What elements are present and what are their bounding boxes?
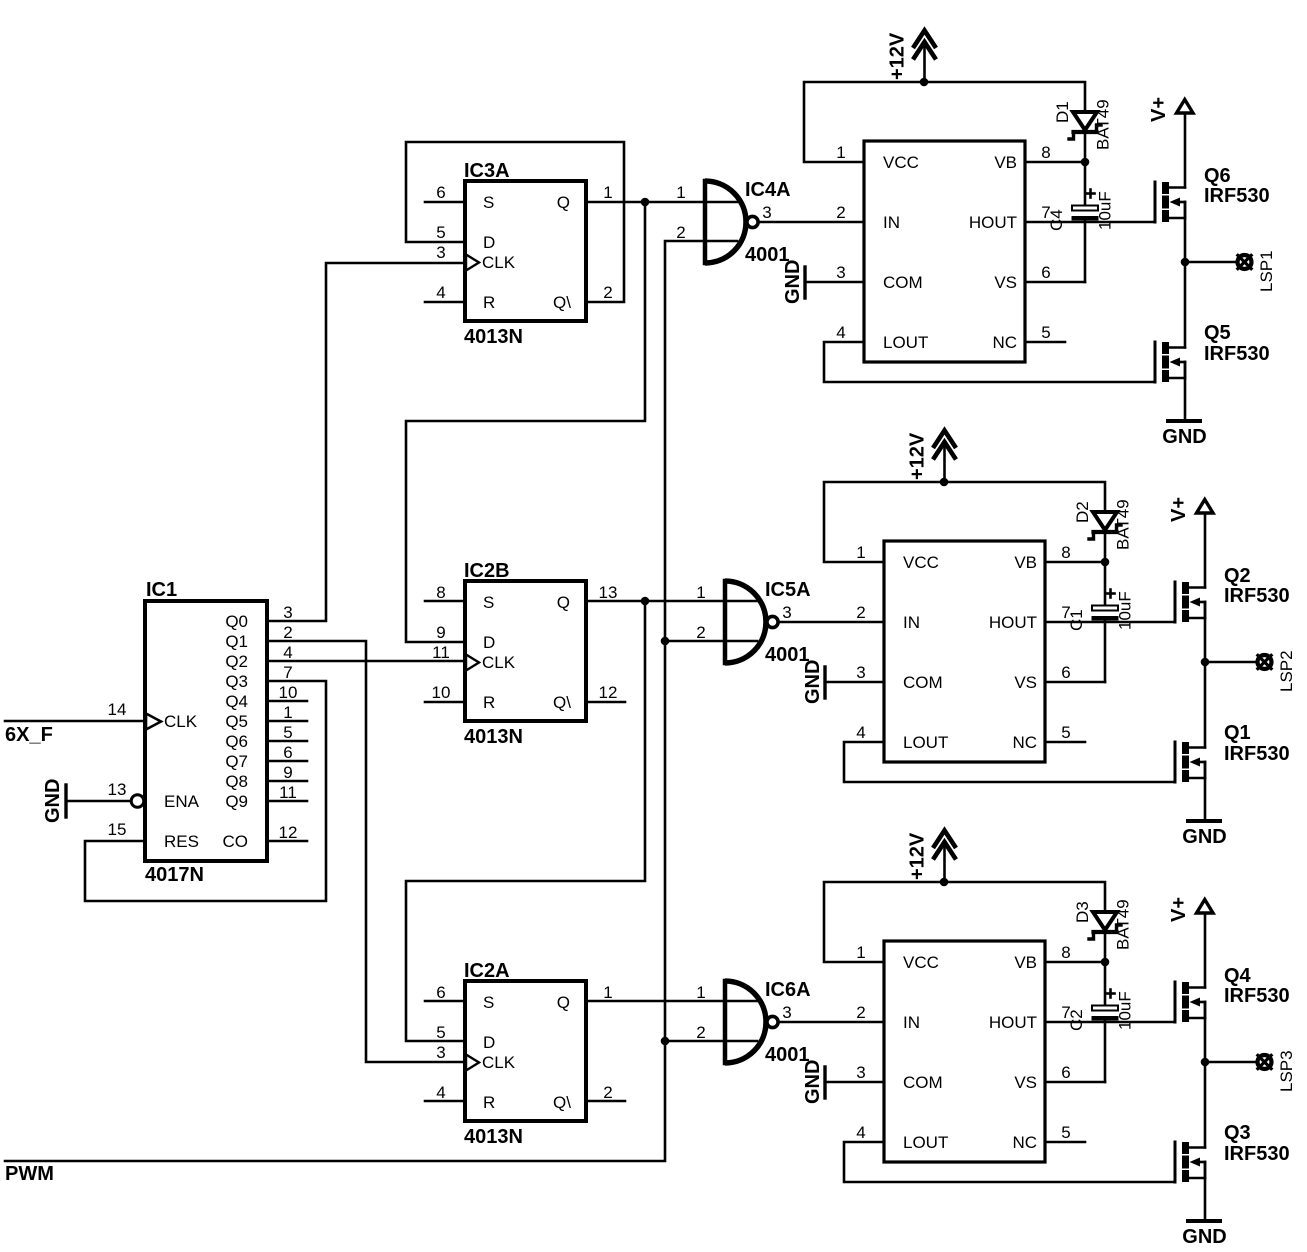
driver IC box (block 3) (884, 941, 1045, 1162)
IC2B R stub (425, 701, 465, 704)
driver NC stub (block 1) (1025, 341, 1065, 344)
svg-text:+12V: +12V (907, 432, 929, 480)
svg-text:4013N: 4013N (464, 1126, 523, 1148)
svg-text:COM: COM (903, 1073, 943, 1092)
svg-text:RES: RES (164, 832, 199, 851)
svg-text:+12V: +12V (887, 32, 909, 80)
NOR gate IC6A (696, 979, 810, 1066)
junction +12V rail (block 1) (920, 78, 929, 87)
svg-text:4017N: 4017N (145, 864, 204, 886)
transistor Q6 IRF530 (block 1) (1155, 165, 1270, 222)
svg-text:C1: C1 (1067, 609, 1086, 631)
wire Q2 source to output node (block 2) (1204, 602, 1207, 662)
svg-text:R: R (483, 693, 495, 712)
svg-text:IRF530: IRF530 (1224, 985, 1290, 1007)
svg-text:2: 2 (603, 1083, 612, 1102)
svg-text:R: R (483, 1093, 495, 1112)
svg-text:12: 12 (599, 683, 618, 702)
IC2A R stub (425, 1100, 465, 1103)
transistor Q5 IRF530 (block 1) (1155, 322, 1270, 382)
svg-text:2: 2 (676, 223, 685, 242)
svg-text:IN: IN (883, 213, 900, 232)
junction output node (block 1) (1181, 258, 1190, 267)
svg-text:Q5: Q5 (225, 712, 248, 731)
wire IC3A Q down to IC2B D (406, 202, 645, 642)
junction VB node (block 2) (1101, 558, 1110, 567)
driver IC box (block 2) (884, 541, 1045, 762)
IC1 Q8 stub (267, 780, 307, 783)
svg-text:10uF: 10uF (1116, 591, 1135, 630)
V+ supply symbol (block 3) (1168, 897, 1213, 988)
svg-text:Q6: Q6 (225, 732, 248, 751)
svg-text:BAT49: BAT49 (1094, 99, 1113, 150)
svg-text:NC: NC (1012, 1133, 1037, 1152)
wire IC1 Q2 to IC2B CLK (267, 660, 465, 663)
diode D3 BAT49 (block 3) (1073, 899, 1133, 960)
svg-text:VS: VS (1014, 1073, 1037, 1092)
+12V supply rail (block 1) (804, 82, 1085, 162)
IC1 ENA inverting bubble (131, 795, 144, 808)
svg-text:CLK: CLK (164, 712, 198, 731)
svg-text:8: 8 (436, 583, 445, 602)
wire IC2B Q to IC5A in1 (586, 600, 757, 603)
svg-text:4: 4 (283, 643, 292, 662)
svg-text:Q: Q (557, 993, 570, 1012)
wire IC2A Q to IC6A in1 (586, 1000, 757, 1003)
svg-text:BAT49: BAT49 (1114, 499, 1133, 550)
junction output node (block 3) (1201, 1058, 1210, 1067)
svg-text:IRF530: IRF530 (1204, 185, 1270, 207)
svg-text:D1: D1 (1053, 101, 1072, 123)
svg-text:3: 3 (762, 203, 771, 222)
wire output node to Q1 drain (block 2) (1204, 662, 1207, 748)
svg-text:IRF530: IRF530 (1224, 743, 1290, 765)
svg-text:IC6A: IC6A (765, 979, 811, 1001)
svg-text:2: 2 (696, 1023, 705, 1042)
+12V power symbol (block 3) (907, 831, 957, 883)
svg-text:14: 14 (108, 700, 127, 719)
wire LOUT to Q3 gate (block 3) (844, 1142, 1175, 1182)
svg-text:LOUT: LOUT (903, 1133, 948, 1152)
wire PWM branch to IC5A in2 (665, 640, 757, 643)
svg-text:NC: NC (992, 333, 1017, 352)
IC2B Q\ stub (586, 701, 625, 704)
svg-text:Q3: Q3 (1224, 1122, 1251, 1144)
svg-text:Q5: Q5 (1204, 322, 1231, 344)
IC1 Q5 stub (267, 720, 307, 723)
svg-text:VB: VB (994, 153, 1017, 172)
svg-text:9: 9 (283, 763, 292, 782)
wire output node to Q5 drain (block 1) (1184, 262, 1187, 348)
svg-text:5: 5 (436, 223, 445, 242)
svg-text:S: S (483, 193, 494, 212)
wire Q1 source to ground (block 2) (1204, 762, 1207, 820)
wire VB pin 8 (block 3) (1045, 961, 1105, 964)
svg-text:GND: GND (802, 660, 824, 704)
svg-text:8: 8 (1061, 543, 1070, 562)
svg-text:CLK: CLK (482, 1053, 516, 1072)
svg-text:1: 1 (696, 983, 705, 1002)
svg-text:IN: IN (903, 1013, 920, 1032)
svg-text:GND: GND (42, 779, 64, 823)
driver NC stub (block 2) (1045, 741, 1085, 744)
svg-text:Q3: Q3 (225, 672, 248, 691)
svg-text:6: 6 (1061, 1063, 1070, 1082)
wire LOUT to Q1 gate (block 2) (844, 742, 1175, 782)
svg-text:Q6: Q6 (1204, 165, 1231, 187)
junction VB node (block 1) (1081, 158, 1090, 167)
svg-text:3: 3 (836, 263, 845, 282)
svg-text:S: S (483, 993, 494, 1012)
svg-text:3: 3 (856, 663, 865, 682)
svg-text:6: 6 (1041, 263, 1050, 282)
svg-text:2: 2 (696, 623, 705, 642)
svg-text:IC2A: IC2A (464, 960, 510, 982)
svg-text:4: 4 (436, 283, 445, 302)
svg-text:Q1: Q1 (225, 632, 248, 651)
svg-text:4013N: 4013N (464, 326, 523, 348)
capacitor C2 10uF (block 3) (1067, 962, 1135, 1082)
svg-text:S: S (483, 593, 494, 612)
V+ supply symbol (block 2) (1168, 497, 1213, 588)
svg-text:1: 1 (603, 983, 612, 1002)
transistor Q1 IRF530 (block 2) (1175, 722, 1290, 782)
ground at Q3 source (block 3) (1182, 1221, 1226, 1248)
svg-text:3: 3 (856, 1063, 865, 1082)
svg-text:IC3A: IC3A (464, 160, 510, 182)
IC1 CO stub (267, 840, 307, 843)
svg-text:4: 4 (836, 323, 845, 342)
NOR gate IC4A (676, 179, 790, 266)
svg-text:V+: V+ (1148, 97, 1170, 122)
svg-text:2: 2 (836, 203, 845, 222)
flip-flop IC2B (432, 560, 618, 748)
ground at driver COM (block 1) (782, 260, 864, 304)
junction +12V rail (block 2) (940, 478, 949, 487)
svg-text:Q: Q (557, 193, 570, 212)
svg-text:Q2: Q2 (225, 652, 248, 671)
svg-text:IC5A: IC5A (765, 579, 811, 601)
svg-text:VCC: VCC (903, 553, 939, 572)
svg-text:3: 3 (782, 1003, 791, 1022)
wire Q3 source to ground (block 3) (1204, 1162, 1207, 1220)
svg-text:LOUT: LOUT (883, 333, 928, 352)
svg-text:VS: VS (1014, 673, 1037, 692)
transistor Q4 IRF530 (block 3) (1175, 965, 1290, 1022)
svg-text:BAT49: BAT49 (1114, 899, 1133, 950)
IC2B S stub (425, 600, 465, 603)
svg-text:LSP1: LSP1 (1257, 250, 1276, 292)
junction PWM to IC6A in2 (661, 1037, 670, 1046)
counter IC1 body (145, 579, 267, 886)
svg-text:LSP3: LSP3 (1277, 1050, 1296, 1092)
svg-text:10: 10 (432, 683, 451, 702)
net 6X_F clock input wire (5, 721, 145, 746)
svg-text:LOUT: LOUT (903, 733, 948, 752)
svg-text:4013N: 4013N (464, 726, 523, 748)
svg-text:5: 5 (283, 723, 292, 742)
wire IC1 Q0 to IC3A CLK (267, 263, 465, 621)
svg-text:Q: Q (557, 593, 570, 612)
svg-text:D: D (483, 633, 495, 652)
svg-text:2: 2 (603, 283, 612, 302)
svg-text:PWM: PWM (5, 1163, 54, 1185)
wire PWM branch to IC6A in2 (665, 1040, 757, 1043)
svg-text:COM: COM (883, 273, 923, 292)
wire VS pin 6 (block 1) (1025, 281, 1085, 284)
svg-text:3: 3 (436, 1043, 445, 1062)
IC1 pin numbers (108, 603, 298, 842)
svg-text:ENA: ENA (164, 792, 200, 811)
svg-text:2: 2 (856, 603, 865, 622)
flip-flop IC2A (436, 960, 612, 1148)
svg-text:CO: CO (223, 832, 249, 851)
junction +12V rail (block 3) (940, 878, 949, 887)
svg-text:1: 1 (676, 183, 685, 202)
wire Q4 source to output node (block 3) (1204, 1002, 1207, 1062)
junction IC2B Q node (641, 597, 650, 606)
wire IC3A Q to IC4A in1 (586, 201, 737, 204)
svg-text:C2: C2 (1067, 1009, 1086, 1031)
svg-text:D2: D2 (1073, 501, 1092, 523)
wire IC1 Q1 to IC2A CLK (267, 641, 465, 1062)
svg-text:5: 5 (436, 1023, 445, 1042)
svg-text:11: 11 (279, 783, 297, 802)
junction IC3A Q node (641, 198, 650, 207)
junction VB node (block 3) (1101, 958, 1110, 967)
svg-text:HOUT: HOUT (989, 1013, 1037, 1032)
svg-text:3: 3 (782, 603, 791, 622)
svg-text:5: 5 (1061, 723, 1070, 742)
wire IC5A out to driver2 IN (780, 621, 884, 624)
wire IC6A out to driver3 IN (780, 1021, 884, 1024)
svg-text:10uF: 10uF (1096, 191, 1115, 230)
IC1 Q9 stub (267, 800, 307, 803)
svg-text:CLK: CLK (482, 653, 516, 672)
svg-text:3: 3 (436, 243, 445, 262)
svg-text:+12V: +12V (907, 832, 929, 880)
svg-text:R: R (483, 293, 495, 312)
svg-text:D: D (483, 1033, 495, 1052)
svg-text:VB: VB (1014, 553, 1037, 572)
svg-text:GND: GND (782, 260, 804, 304)
driver pin numbers (block 1) (836, 143, 1050, 342)
IC2A Q\ stub (586, 1100, 625, 1103)
svg-text:6: 6 (1061, 663, 1070, 682)
wire IC3A feedback Q\ to D (406, 142, 624, 302)
svg-text:Q2: Q2 (1224, 565, 1251, 587)
svg-text:1: 1 (696, 583, 705, 602)
svg-text:5: 5 (1041, 323, 1050, 342)
svg-text:4: 4 (856, 723, 865, 742)
svg-text:10: 10 (279, 683, 298, 702)
diode D2 BAT49 (block 2) (1073, 499, 1133, 560)
connector LSP2 (block 2) (1205, 650, 1296, 692)
svg-text:NC: NC (1012, 733, 1037, 752)
capacitor C4 10uF (block 1) (1047, 162, 1115, 282)
svg-text:V+: V+ (1168, 897, 1190, 922)
wire IC1 RES feedback from Q3 (85, 681, 326, 901)
svg-text:GND: GND (802, 1060, 824, 1104)
wire output node to Q3 drain (block 3) (1204, 1062, 1207, 1148)
svg-text:IRF530: IRF530 (1204, 343, 1270, 365)
junction output node (block 2) (1201, 658, 1210, 667)
ground at driver COM (block 3) (802, 1060, 884, 1104)
V+ supply symbol (block 1) (1148, 97, 1193, 188)
svg-text:15: 15 (108, 820, 127, 839)
svg-text:LSP2: LSP2 (1277, 650, 1296, 692)
NOR gate IC5A (696, 579, 810, 666)
driver NC stub (block 3) (1045, 1141, 1085, 1144)
svg-text:10uF: 10uF (1116, 991, 1135, 1030)
svg-text:4: 4 (856, 1123, 865, 1142)
svg-text:IRF530: IRF530 (1224, 585, 1290, 607)
svg-text:VS: VS (994, 273, 1017, 292)
svg-text:Q4: Q4 (225, 692, 248, 711)
svg-text:Q7: Q7 (225, 752, 248, 771)
svg-text:Q0: Q0 (225, 612, 248, 631)
svg-text:1: 1 (856, 943, 865, 962)
svg-text:13: 13 (108, 780, 127, 799)
connector LSP3 (block 3) (1205, 1050, 1296, 1092)
driver pin numbers (block 2) (856, 543, 1070, 742)
wire HOUT to Q4 gate (block 3) (1045, 1021, 1175, 1024)
wire HOUT to Q2 gate (block 2) (1045, 621, 1175, 624)
+12V supply rail (block 2) (824, 482, 1105, 562)
svg-text:Q\: Q\ (553, 693, 571, 712)
svg-text:GND: GND (1182, 826, 1226, 848)
svg-text:CLK: CLK (482, 253, 516, 272)
ground at Q1 source (block 2) (1182, 821, 1226, 848)
svg-text:Q\: Q\ (553, 293, 571, 312)
svg-text:13: 13 (599, 583, 618, 602)
IC3A R stub (425, 301, 465, 304)
capacitor C1 10uF (block 2) (1067, 562, 1135, 682)
net PWM wire and riser (5, 241, 737, 1185)
svg-text:GND: GND (1182, 1226, 1226, 1247)
ground at IC1 ENA (42, 779, 131, 823)
flip-flop IC3A (436, 160, 612, 348)
svg-text:6: 6 (436, 983, 445, 1002)
svg-text:2: 2 (856, 1003, 865, 1022)
svg-text:12: 12 (279, 823, 298, 842)
svg-text:IRF530: IRF530 (1224, 1143, 1290, 1165)
svg-text:Q8: Q8 (225, 772, 248, 791)
IC1 Q6 stub (267, 740, 307, 743)
svg-text:8: 8 (1061, 943, 1070, 962)
svg-text:5: 5 (1061, 1123, 1070, 1142)
driver pin numbers (block 3) (856, 943, 1070, 1142)
svg-text:V+: V+ (1168, 497, 1190, 522)
wire Q6 source to output node (block 1) (1184, 202, 1187, 262)
wire VS pin 6 (block 3) (1045, 1081, 1105, 1084)
svg-text:7: 7 (283, 663, 292, 682)
svg-text:1: 1 (836, 143, 845, 162)
svg-text:HOUT: HOUT (989, 613, 1037, 632)
svg-text:1: 1 (283, 703, 292, 722)
svg-text:VB: VB (1014, 953, 1037, 972)
IC2A S stub (425, 1000, 465, 1003)
svg-text:11: 11 (432, 643, 450, 662)
IC1 Q4 stub (267, 700, 307, 703)
svg-text:6: 6 (436, 183, 445, 202)
wire VB pin 8 (block 1) (1025, 161, 1085, 164)
wire IC4A out to driver1 IN (760, 221, 864, 224)
wire HOUT to Q6 gate (block 1) (1025, 221, 1155, 224)
wire IC2B Q down to IC2A D (406, 601, 645, 1041)
svg-text:9: 9 (436, 623, 445, 642)
svg-text:1: 1 (856, 543, 865, 562)
svg-text:IN: IN (903, 613, 920, 632)
junction PWM to IC5A in2 (661, 637, 670, 646)
transistor Q3 IRF530 (block 3) (1175, 1122, 1290, 1182)
svg-text:D: D (483, 233, 495, 252)
+12V supply rail (block 3) (824, 882, 1105, 962)
svg-text:Q\: Q\ (553, 1093, 571, 1112)
IC3A S stub (425, 201, 465, 204)
svg-text:COM: COM (903, 673, 943, 692)
svg-text:Q4: Q4 (1224, 965, 1252, 987)
svg-text:4: 4 (436, 1083, 445, 1102)
transistor Q2 IRF530 (block 2) (1175, 565, 1290, 622)
svg-text:C4: C4 (1047, 209, 1066, 231)
svg-text:GND: GND (1162, 426, 1206, 448)
wire VS pin 6 (block 2) (1045, 681, 1105, 684)
svg-text:IC2B: IC2B (464, 560, 510, 582)
ground at Q5 source (block 1) (1162, 421, 1206, 448)
diode D1 BAT49 (block 1) (1053, 99, 1113, 160)
svg-text:8: 8 (1041, 143, 1050, 162)
svg-text:6: 6 (283, 743, 292, 762)
svg-text:Q1: Q1 (1224, 722, 1251, 744)
wire VB pin 8 (block 2) (1045, 561, 1105, 564)
svg-text:6X_F: 6X_F (5, 724, 53, 746)
driver IC box (block 1) (864, 141, 1025, 362)
svg-text:HOUT: HOUT (969, 213, 1017, 232)
svg-text:Q9: Q9 (225, 792, 248, 811)
+12V power symbol (block 1) (887, 31, 937, 83)
wire Q5 source to ground (block 1) (1184, 362, 1187, 420)
svg-text:D3: D3 (1073, 901, 1092, 923)
svg-text:1: 1 (603, 183, 612, 202)
svg-text:IC1: IC1 (146, 579, 177, 601)
svg-text:2: 2 (283, 623, 292, 642)
svg-text:IC4A: IC4A (745, 179, 791, 201)
svg-text:VCC: VCC (903, 953, 939, 972)
+12V power symbol (block 2) (907, 431, 957, 483)
svg-text:VCC: VCC (883, 153, 919, 172)
svg-text:3: 3 (283, 603, 292, 622)
IC1 Q7 stub (267, 760, 307, 763)
ground at driver COM (block 2) (802, 660, 884, 704)
connector LSP1 (block 1) (1185, 250, 1276, 292)
wire LOUT to Q5 gate (block 1) (824, 342, 1155, 382)
